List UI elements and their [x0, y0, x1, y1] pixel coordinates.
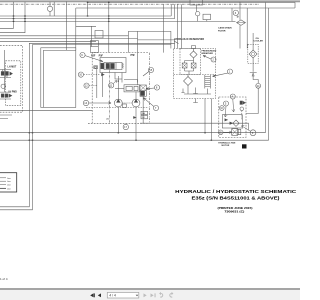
breather diamond [190, 51, 197, 58]
breather dashed box [180, 49, 201, 75]
svg-text:7: 7 [155, 106, 157, 110]
wire pump block dashed lower [86, 107, 149, 109]
valve block dashed bottom [88, 122, 149, 124]
node ref black square [242, 144, 247, 148]
wire x108.8 [108, 2, 110, 53]
svg-text:17: 17 [124, 125, 127, 129]
pump housing [115, 85, 140, 92]
wire bottom long B [0, 139, 269, 141]
svg-text:15: 15 [149, 68, 152, 72]
solenoid valve spool row [101, 63, 124, 70]
wire y16 [0, 15, 171, 17]
callout 1 [213, 69, 233, 77]
wire top verticals into reservoir [163, 4, 181, 52]
valve body tall rect [91, 41, 99, 53]
wire y26.3 [76, 25, 96, 27]
node bottom junctions [29, 132, 213, 141]
callout 10 [78, 72, 83, 77]
travel pump LH PMD [0, 92, 17, 99]
wire x66.7 [66, 2, 68, 51]
callout 4 [230, 94, 235, 112]
toolbar [0, 288, 300, 300]
wire cooler outlet [250, 33, 259, 83]
wire y21.3 [0, 20, 232, 22]
fan valve solid box [222, 115, 242, 128]
wire y110.3 [0, 109, 92, 111]
valve block dashed box [92, 53, 148, 124]
wire frame inner [0, 45, 171, 210]
wire reservoir label pointer [174, 41, 179, 44]
wire y32.7 corner [0, 2, 25, 33]
svg-text:5: 5 [225, 102, 227, 106]
svg-text:DA: DA [142, 112, 146, 115]
gauge circle [240, 107, 244, 111]
wire x54 [53, 2, 55, 16]
callout 2 [203, 56, 216, 63]
svg-text:34: 34 [257, 84, 260, 88]
tank drain T left [181, 89, 184, 93]
wire y35.8 [0, 35, 128, 37]
tank leg below [193, 99, 198, 103]
pressure filter rect [140, 85, 146, 96]
suction strainer diamond [184, 74, 193, 94]
oil cooler dashed box [248, 44, 258, 63]
travel box outer dashed [0, 45, 22, 112]
svg-text:6: 6 [235, 11, 237, 15]
pilot dash-dot vertical [108, 65, 110, 123]
svg-text:FILTER: FILTER [218, 30, 226, 32]
toolbar next buttons disabled [144, 292, 174, 298]
wire pump shaft [122, 102, 132, 104]
callout 6 [233, 10, 238, 17]
wire stub x232 up [231, 8, 233, 21]
solenoid D [240, 101, 245, 104]
wire y41.3 [0, 40, 96, 42]
pump coupling box [123, 104, 127, 108]
relief valve top box [190, 0, 203, 21]
svg-text:CASE DRAIN: CASE DRAIN [218, 27, 232, 30]
wire right loop inner [268, 8, 270, 140]
svg-text:12: 12 [85, 84, 88, 88]
callout 5 [224, 101, 229, 117]
breather elements [182, 58, 196, 74]
svg-text:COOLER: COOLER [254, 40, 264, 42]
wire y28.3 corner [0, 2, 14, 28]
wire travel stubs [0, 50, 12, 119]
svg-text:HYDRAULIC FAN: HYDRAULIC FAN [218, 142, 235, 145]
oil cooler diamond [249, 50, 257, 58]
wire left loop inner partial [43, 50, 75, 107]
callout 8 [146, 85, 160, 90]
svg-text:BREATHER: BREATHER [202, 52, 214, 55]
reservoir inner divider dashed [174, 73, 216, 75]
svg-text:33: 33 [220, 107, 223, 110]
pilot cap D4 [141, 115, 148, 119]
svg-text:1: 1 [229, 70, 231, 74]
svg-text:HYDRAULIC / HYDROSTATIC SCHEMA: HYDRAULIC / HYDROSTATIC SCHEMATIC [175, 189, 297, 195]
wire y18.5 [0, 18, 175, 20]
callout 14 [83, 100, 111, 105]
wire x87.5 [87, 2, 89, 17]
wire zigzag y39.9 [138, 31, 175, 82]
wire reservoir downpipes [205, 99, 211, 141]
wire left loop rect [41, 48, 76, 108]
svg-text:P2F: P2F [91, 54, 96, 57]
callout 17 [123, 123, 128, 130]
valve block dashdot right edge [148, 53, 150, 124]
case drain filter [237, 2, 246, 49]
wire housing top links [124, 80, 138, 85]
node black arrow [134, 117, 137, 119]
aux valve box [203, 14, 211, 21]
callout 40 [47, 6, 52, 11]
title block [175, 189, 297, 214]
node arrow mark [102, 73, 105, 75]
return cooler ladder [205, 75, 211, 94]
wire right feeders [246, 8, 248, 49]
wire y38.4 [0, 37, 138, 39]
wire reservoir drain [184, 93, 211, 95]
svg-text:8: 8 [156, 86, 158, 90]
wire case drain corner [232, 20, 236, 22]
breather cap [192, 46, 196, 51]
fan motor filter square [232, 129, 241, 136]
toolbar page input [107, 292, 139, 298]
svg-text:HYDRAULIC RESERVOIR: HYDRAULIC RESERVOIR [174, 38, 204, 41]
pilot dashed vertical [241, 111, 243, 120]
solenoid valve outer rect [100, 58, 126, 73]
pump circle left [114, 76, 122, 107]
callout 12 [84, 83, 97, 88]
check valve diamond [225, 119, 239, 127]
wire bottom long A [0, 132, 265, 134]
svg-text:10: 10 [79, 73, 82, 77]
wire top-right upper [88, 3, 296, 9]
fan callout 35 [218, 130, 231, 135]
window top hairline [0, 0, 300, 2]
svg-text:2: 2 [212, 58, 214, 62]
svg-text:1 of 4: 1 of 4 [0, 277, 8, 281]
leader dashed circle10 [84, 74, 100, 76]
callout 9 [80, 52, 103, 62]
svg-text:LH MOT: LH MOT [8, 66, 17, 68]
wire x91.7 [91, 26, 93, 46]
travel box inner dashed [6, 61, 21, 106]
svg-text:P5F: P5F [131, 54, 136, 57]
wire frame outer [0, 43, 175, 207]
pilot port circle [94, 66, 98, 69]
pump circle right [132, 92, 140, 107]
pump block dashed box [219, 97, 246, 138]
wire right loop outer [264, 3, 266, 133]
wire zigzag y31.4 [128, 31, 171, 52]
svg-text:4: 4 [232, 95, 234, 99]
wire valve internals [97, 69, 122, 98]
svg-text:P5F: P5F [99, 54, 104, 57]
callout 34 [246, 83, 261, 113]
node pump stem junction [118, 81, 119, 82]
callout 16 [143, 67, 154, 76]
callout 36 [1, 84, 5, 88]
svg-text:9: 9 [81, 53, 83, 57]
wire y8 long [76, 7, 295, 9]
svg-text:7309631 (C): 7309631 (C) [224, 210, 244, 214]
legend box [0, 173, 17, 192]
tank drain T right [193, 88, 198, 94]
callout 3 [242, 126, 256, 136]
callout 11 [109, 81, 117, 88]
wire dash-dot top boundary [0, 3, 259, 5]
valve pilot box upper [95, 31, 103, 39]
fan callout 33 [220, 106, 225, 111]
travel motor LH MOT [0, 66, 17, 77]
reservoir dashed box [174, 49, 216, 99]
svg-text:14: 14 [84, 101, 87, 105]
svg-text:E35z (S/N B4S511001 & ABOVE): E35z (S/N B4S511001 & ABOVE) [192, 195, 280, 201]
wire pump downstem left [117, 107, 119, 133]
svg-text:11: 11 [110, 84, 113, 88]
wire valve to fan y121.6 [140, 96, 248, 130]
wire pump downstem right [135, 107, 137, 140]
wire x75.8 down [75, 8, 77, 50]
node junction dots top-left [13, 2, 110, 22]
callout 7 [144, 98, 159, 111]
pilot cap DA [141, 111, 148, 115]
svg-text:MOTOR: MOTOR [222, 145, 230, 147]
